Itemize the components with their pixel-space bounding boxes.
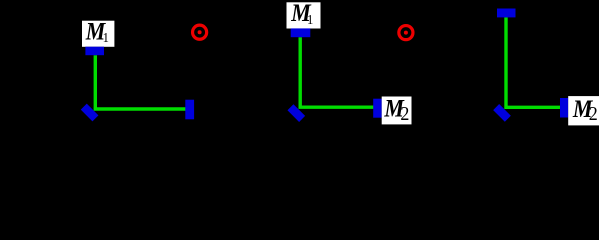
setup 2 : label text M1 xyxy=(290,0,313,27)
setup 2 : label box M1 xyxy=(287,2,321,28)
setup 1 : label text M1 xyxy=(85,18,109,46)
setup 2 : beam splitter (rotated 45) xyxy=(287,104,305,122)
setup 2 : beam path (wire) xyxy=(300,37,374,107)
setup 2 : field out of page symbol xyxy=(399,26,413,40)
svg-text:1: 1 xyxy=(307,11,313,27)
setup 2 : mirror M2 (right, vertical) xyxy=(373,99,382,118)
setup 3 : mirror top (horizontal, unlabeled) xyxy=(497,9,516,18)
svg-text:1: 1 xyxy=(103,29,109,45)
setup 1 : label box M1 xyxy=(82,21,114,47)
setup 1 : field out of page symbol xyxy=(193,25,207,39)
setup 1 : mirror right (vertical, unlabeled) xyxy=(185,100,194,120)
svg-text:2: 2 xyxy=(400,103,409,125)
setup 2 : mirror M1 (top, horizontal) xyxy=(291,28,311,37)
setup 3 : label text M2 xyxy=(572,96,598,126)
setup 1 : beam path (wire) xyxy=(95,55,185,109)
setup 1 : beam splitter (rotated 45) xyxy=(81,104,99,122)
setup 2 : label box M2 xyxy=(382,97,412,125)
setup 3 : beam splitter (rotated 45) xyxy=(493,104,511,122)
setup 3 : beam path (wire) xyxy=(506,17,560,107)
svg-text:2: 2 xyxy=(589,103,598,125)
setup 3 : label box M2 xyxy=(568,96,599,125)
setup 2 : label text M2 xyxy=(383,95,409,125)
setup 3 : mirror M2 (right, vertical) xyxy=(560,98,568,118)
setup 1 : mirror M1 (top, horizontal) xyxy=(85,47,104,56)
